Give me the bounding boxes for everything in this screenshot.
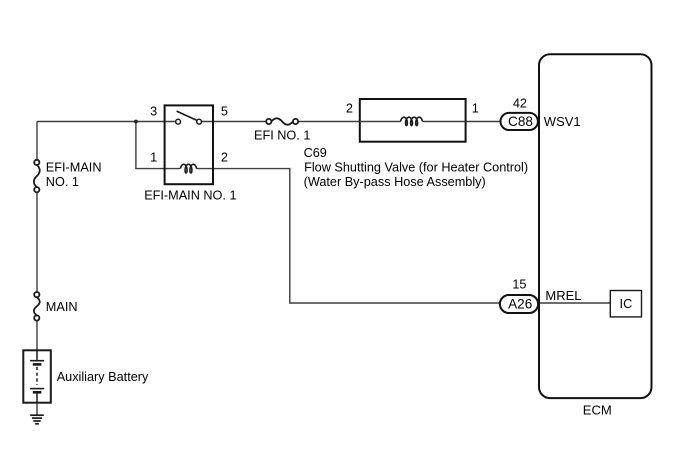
svg-text:5: 5 [221,105,228,119]
svg-text:MREL: MREL [545,288,581,303]
wire: left vertical between MAIN fuse and battery [36,321,38,351]
wire: battery negative to ground [36,403,38,416]
svg-text:ECM: ECM [583,402,612,417]
connector A26 (pin 15) stadium [500,295,538,313]
svg-text:C88: C88 [508,114,533,129]
svg-text:C69: C69 [304,146,327,160]
svg-text:2: 2 [221,151,228,165]
battery Auxiliary Battery [23,350,51,402]
svg-text:Flow Shutting Valve (for Heate: Flow Shutting Valve (for Heater Control) [304,161,528,175]
wire: relay interior stubs, switch row [165,121,213,123]
svg-text:A26: A26 [508,297,532,312]
svg-text:EFI NO. 1: EFI NO. 1 [254,129,310,143]
ECM box [539,54,652,398]
wire: drop from junction to relay pin 1 [136,122,165,169]
svg-text:(Water By-pass Hose Assembly): (Water By-pass Hose Assembly) [304,175,486,189]
relay coil [180,164,196,173]
wire: fuse EFI NO. 1 to valve C69 pin 2 [298,121,360,123]
wire: relay pin 2 down and right to ECM connector A26 [213,169,499,303]
wire inside valve C69 [360,121,466,123]
svg-text:MAIN: MAIN [46,300,78,314]
relay switch blade [177,111,197,120]
svg-text:NO. 1: NO. 1 [46,175,79,189]
valve C69 coil [401,117,423,125]
relay EFI-MAIN NO. 1 box [165,105,213,184]
svg-text:3: 3 [150,105,157,119]
svg-text:IC: IC [620,297,633,311]
wire: left vertical between EFI-MAIN fuse and MAIN fuse [36,192,38,292]
svg-text:EFI-MAIN: EFI-MAIN [46,160,102,174]
wire: relay pin 5 to fuse EFI NO. 1 [213,121,266,123]
wire: valve C69 pin 1 to ECM connector C88 [466,121,501,123]
relay switch contact circles [176,119,181,124]
wire: connector A26 to IC inside ECM [539,302,611,304]
svg-text:2: 2 [346,101,353,115]
wire: top horizontal from left vertical to relay pin 3 [37,121,165,123]
fusible link EFI-MAIN NO. 1 (left vertical) [34,160,40,193]
svg-text:Auxiliary Battery: Auxiliary Battery [57,370,149,384]
connector C88 (pin 42) stadium [501,113,538,130]
svg-text:EFI-MAIN NO. 1: EFI-MAIN NO. 1 [144,188,236,202]
svg-text:15: 15 [512,278,526,292]
ground symbol below battery [30,415,44,424]
junction node at relay feed split [134,120,138,124]
fuse EFI NO. 1 (horizontal fusible link) [266,118,298,124]
svg-text:42: 42 [513,96,527,110]
wire: main B+ feed, left vertical top segment [36,122,38,160]
svg-text:1: 1 [472,102,479,116]
IC box inside ECM [610,291,641,317]
fusible link MAIN (left vertical) [34,292,40,321]
svg-text:1: 1 [150,151,157,165]
svg-text:WSV1: WSV1 [544,114,581,129]
solenoid valve C69 box [360,99,466,142]
wire: relay interior, coil row [165,168,213,170]
